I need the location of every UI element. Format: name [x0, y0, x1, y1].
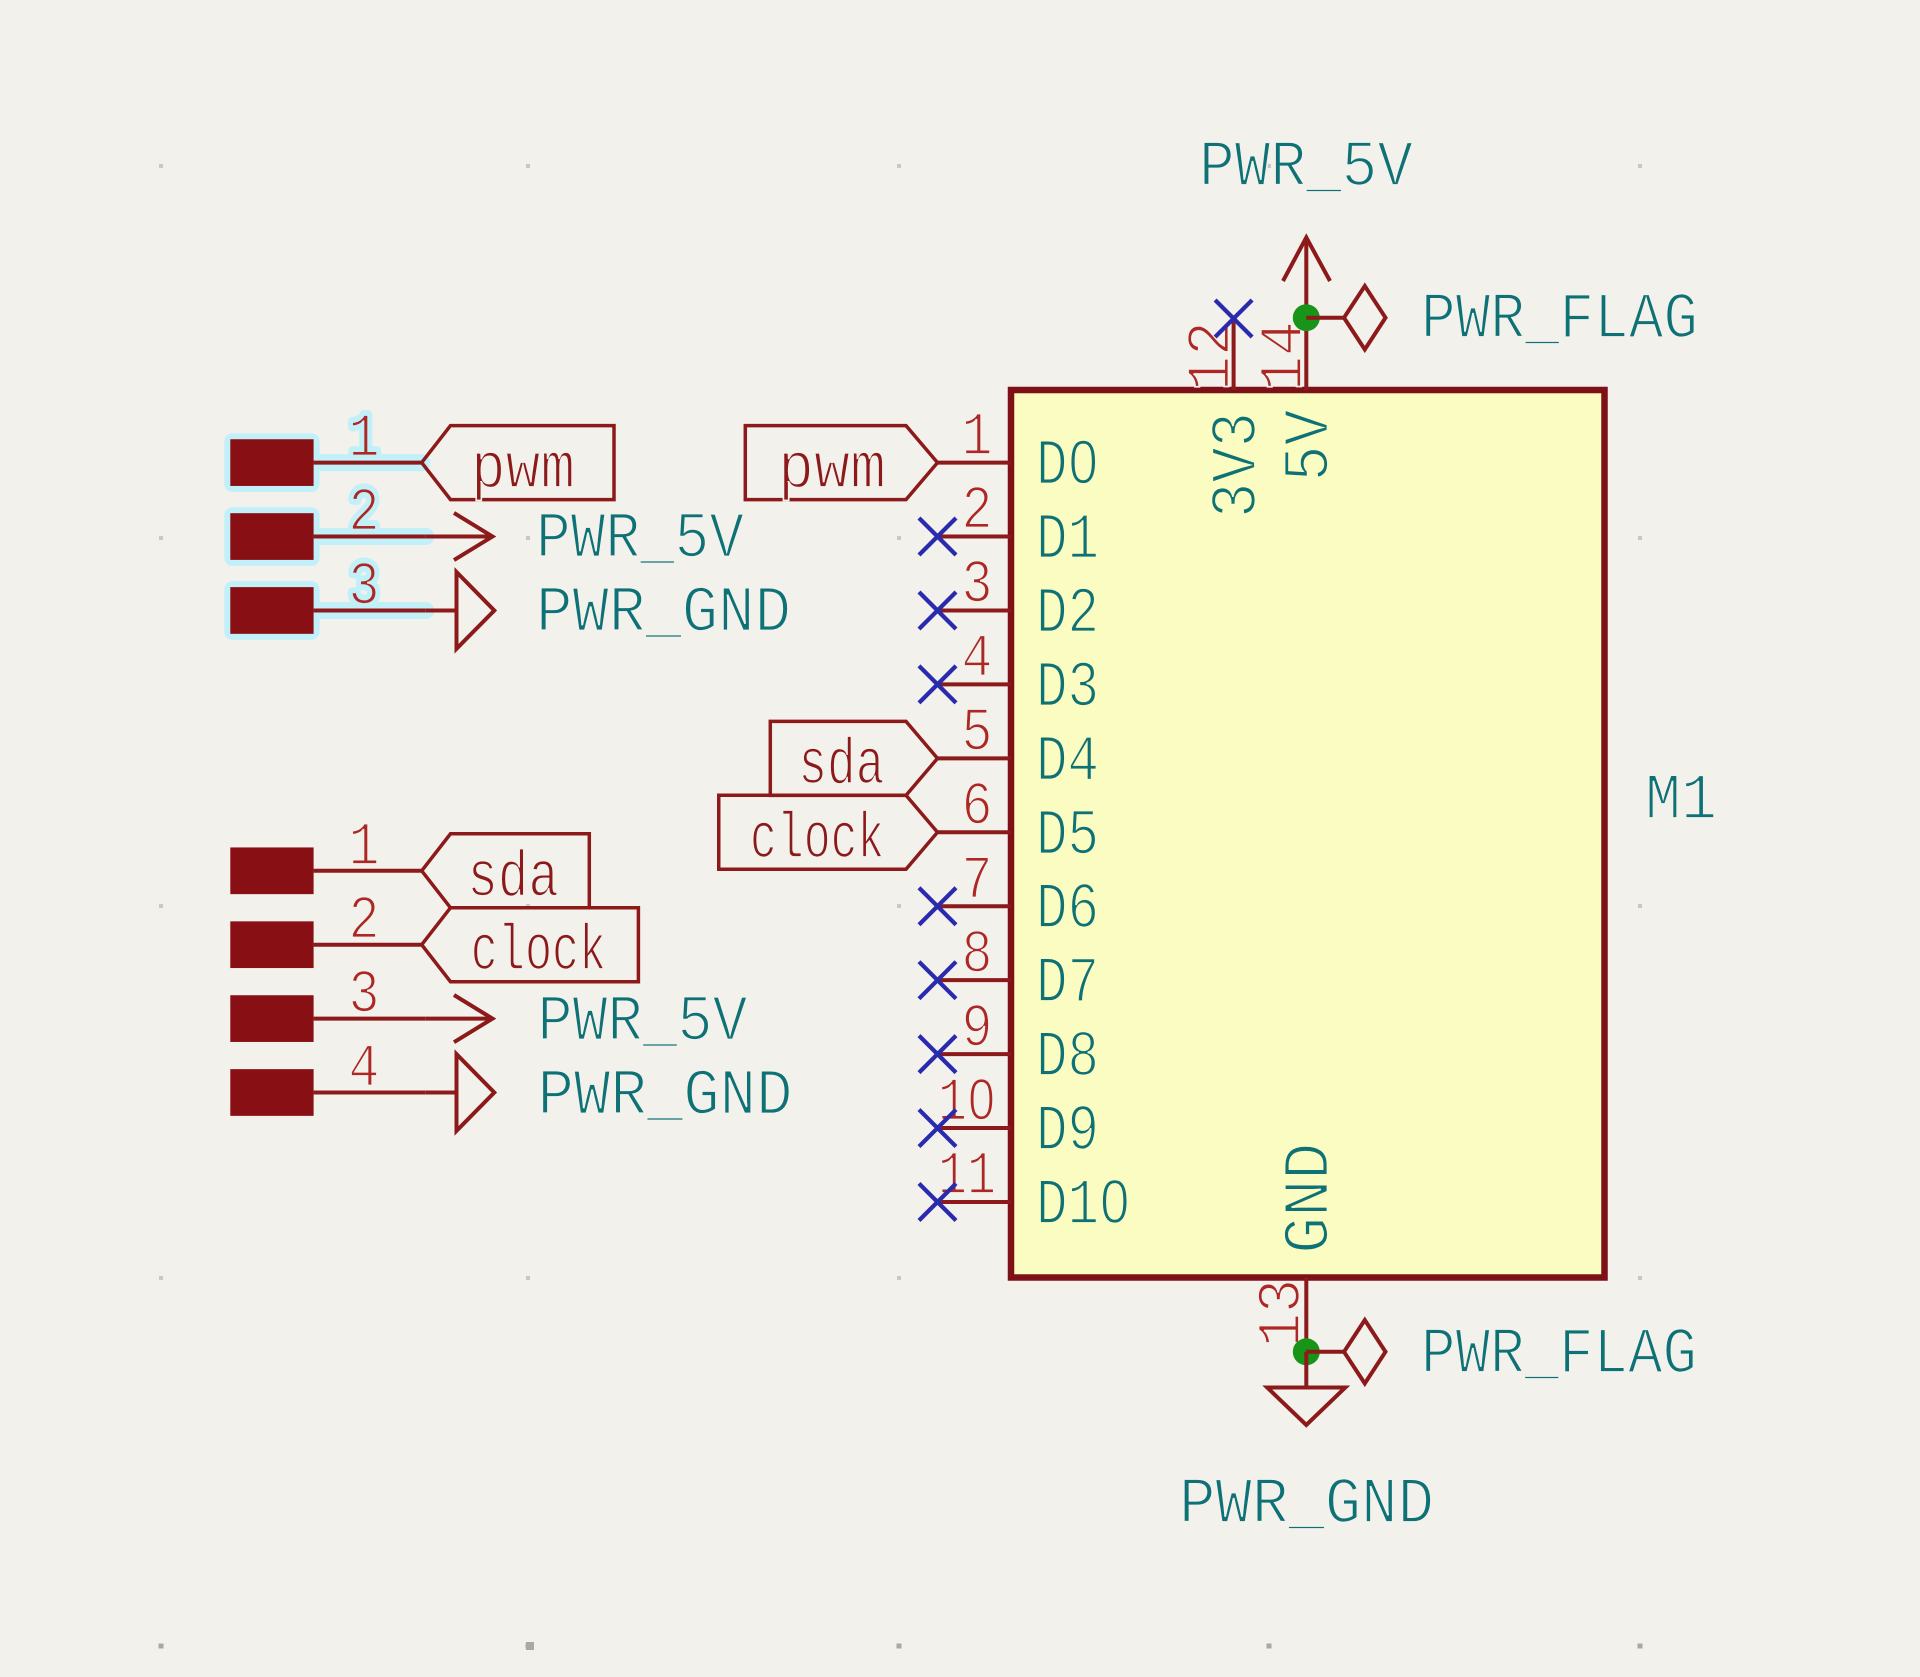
ground symbol PWR_GND (connector-2 pin 4) [426, 1054, 495, 1131]
svg-text:PWR_5V: PWR_5V [1199, 131, 1413, 205]
pin 14 (5V) of M1 [1251, 318, 1348, 482]
svg-text:D5: D5 [1036, 799, 1099, 873]
svg-text:PWR_GND: PWR_GND [536, 577, 791, 651]
svg-text:12: 12 [1179, 321, 1248, 391]
svg-text:7: 7 [962, 847, 993, 916]
wire from connector-2 pad 3 [314, 1017, 426, 1021]
wire from connector-1 pad 1 [314, 461, 422, 465]
module M1 body [1011, 390, 1605, 1278]
power flag PWR_FLAG (bottom) [1306, 1320, 1385, 1384]
power symbol PWR_5V (connector-1 pin 2, open arrow) [426, 513, 493, 560]
hierarchical label sda (connector-2) [422, 834, 590, 916]
pin 7 (D6) of M1 [938, 847, 1100, 947]
pin 8 (D7) of M1 [938, 921, 1100, 1021]
svg-text:sda: sda [467, 841, 558, 915]
svg-text:3: 3 [962, 552, 993, 621]
svg-text:PWR_FLAG: PWR_FLAG [1421, 283, 1698, 357]
pin 3 (D2) of M1 [938, 552, 1100, 652]
svg-text:clock: clock [471, 915, 606, 989]
no-connect X on pin 12 [1215, 300, 1252, 337]
pin 10 (D9) of M1 [938, 1069, 1100, 1169]
svg-text:M1: M1 [1645, 764, 1717, 838]
no-connect X on pin 9 [919, 1036, 956, 1073]
pin 1 (D0) of M1 [938, 404, 1100, 504]
wire from connector-2 pad 1 [314, 869, 422, 873]
power flag PWR_FLAG (top) [1306, 286, 1385, 350]
svg-text:10: 10 [938, 1069, 996, 1138]
svg-text:D9: D9 [1036, 1095, 1099, 1169]
junction (pin 13 / PWR_FLAG / GND) [1293, 1338, 1320, 1365]
pin 6 (D5) of M1 [938, 774, 1100, 874]
svg-text:pwm: pwm [471, 433, 575, 507]
no-connect X on pin 10 [919, 1110, 956, 1147]
svg-text:5: 5 [962, 700, 993, 769]
svg-text:13: 13 [1249, 1279, 1318, 1347]
svg-text:14: 14 [1251, 321, 1320, 391]
connector-1 pad 1 [230, 439, 313, 486]
zero-dot cover pin10 [977, 1095, 987, 1108]
svg-text:1: 1 [962, 404, 993, 473]
svg-text:D3: D3 [1036, 651, 1099, 725]
hierarchical label sda (at pin 5) [770, 721, 937, 803]
pin 12 (3V3) of M1 [1179, 319, 1276, 519]
svg-text:PWR_5V: PWR_5V [538, 986, 748, 1060]
pin 5 (D4) of M1 [938, 700, 1100, 800]
svg-text:D2: D2 [1036, 577, 1099, 651]
pin 4 (D3) of M1 [938, 626, 1100, 726]
power symbol PWR_5V (connector-2 pin 3, open arrow) [426, 995, 493, 1042]
junction (pin 14 / PWR_FLAG) [1293, 304, 1320, 331]
hierarchical label pwm (at pin 1) [745, 426, 937, 508]
no-connect X on pin 8 [919, 962, 956, 999]
svg-text:PWR_GND: PWR_GND [538, 1060, 793, 1134]
svg-text:PWR_5V: PWR_5V [536, 503, 744, 577]
ground symbol PWR_GND (connector-1 pin 3) [426, 572, 495, 649]
wire from connector-2 pad 4 [314, 1091, 426, 1095]
connector-2 pad 1 [230, 847, 313, 894]
svg-text:PWR_FLAG: PWR_FLAG [1421, 1318, 1697, 1392]
zero-dot cover D0 [1077, 455, 1089, 471]
svg-text:pwm: pwm [778, 433, 886, 507]
svg-text:8: 8 [962, 921, 993, 990]
svg-text:D7: D7 [1036, 947, 1099, 1021]
pin 13 (GND) of M1 [1249, 1143, 1348, 1352]
svg-text:GND: GND [1274, 1143, 1348, 1254]
connector-2 pad 4 [230, 1069, 313, 1116]
svg-text:11: 11 [938, 1143, 996, 1212]
connector-2 pad 3 [230, 995, 313, 1042]
connector-2 pad 2 [230, 921, 313, 968]
svg-text:6: 6 [962, 774, 993, 843]
connector-1 pad 2 [230, 513, 313, 560]
pin 9 (D8) of M1 [938, 995, 1100, 1095]
svg-text:D6: D6 [1036, 873, 1099, 947]
svg-text:sda: sda [798, 729, 884, 803]
hierarchical label clock (connector-2) [422, 908, 639, 990]
pin 2 (D1) of M1 [938, 478, 1100, 578]
zero-dot cover D10 [1109, 1194, 1121, 1210]
no-connect X on pin 7 [919, 888, 956, 925]
svg-text:3V3: 3V3 [1201, 412, 1275, 518]
svg-text:D4: D4 [1036, 725, 1099, 799]
svg-text:D1: D1 [1036, 504, 1099, 578]
selection highlight of connector 1 [224, 433, 425, 640]
connector-1 pad 3 [230, 587, 313, 634]
no-connect X on pin 3 [919, 592, 956, 629]
power symbol PWR_5V (top, open arrow) [1283, 238, 1330, 318]
wire from connector-1 pad 3 [314, 608, 426, 612]
svg-text:D8: D8 [1036, 1021, 1099, 1095]
svg-text:D0: D0 [1036, 430, 1099, 504]
wire from connector-2 pad 2 [314, 943, 422, 947]
svg-text:clock: clock [750, 803, 884, 877]
svg-text:PWR_GND: PWR_GND [1179, 1468, 1434, 1542]
hierarchical label pwm (left) [422, 426, 614, 508]
no-connect X on pin 2 [919, 518, 956, 555]
ground symbol PWR_GND (bottom) [1267, 1352, 1345, 1425]
wire from connector-1 pad 2 [314, 535, 426, 539]
svg-text:5V: 5V [1274, 410, 1348, 482]
hierarchical label clock (at pin 6) [719, 795, 938, 877]
no-connect X on pin 4 [919, 666, 956, 703]
pin 11 (D10) of M1 [938, 1143, 1131, 1243]
svg-text:4: 4 [962, 626, 993, 695]
svg-text:9: 9 [962, 995, 993, 1064]
svg-text:2: 2 [962, 478, 993, 547]
no-connect X on pin 11 [919, 1184, 956, 1221]
